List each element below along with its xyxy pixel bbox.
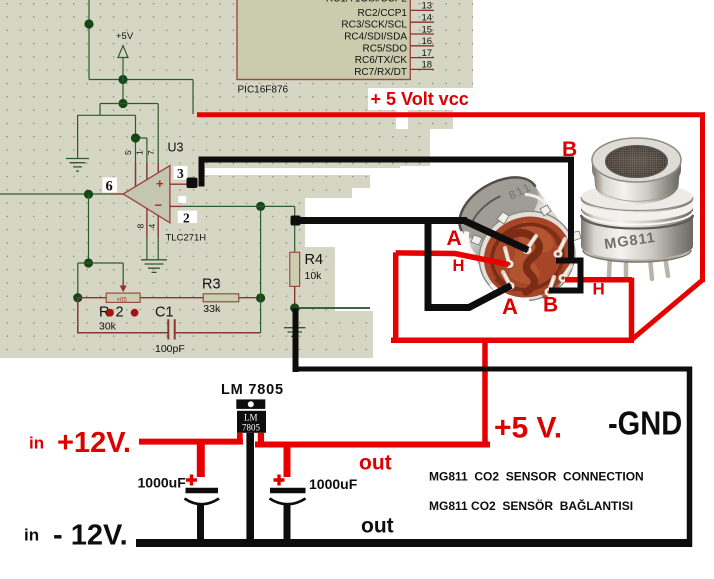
svg-text:H: H bbox=[453, 257, 465, 275]
junction dot bbox=[256, 293, 265, 302]
junction dot bbox=[84, 19, 93, 28]
svg-text:- 12V.: - 12V. bbox=[53, 520, 128, 552]
RIGHT SENSOR photo (MG811 side view) bbox=[581, 138, 693, 279]
svg-text:2: 2 bbox=[183, 210, 190, 225]
svg-text:U3: U3 bbox=[168, 141, 184, 155]
ground symbol (under R4) bbox=[284, 328, 306, 341]
junction dot bbox=[84, 190, 93, 199]
svg-text:−: − bbox=[155, 198, 163, 213]
svg-text:14: 14 bbox=[422, 13, 433, 24]
svg-text:2: 2 bbox=[116, 305, 124, 321]
capacitor C2 leg (red) bbox=[197, 444, 205, 477]
capacitor C3 plates bbox=[270, 488, 306, 494]
wire: pot to R3 bbox=[140, 297, 203, 299]
resistor R3 bbox=[203, 294, 260, 302]
sensor pins bbox=[503, 236, 571, 296]
junction dot bbox=[84, 258, 93, 267]
sensor rim bbox=[466, 197, 589, 315]
sensor cap bbox=[592, 160, 681, 192]
plus sign C2 bbox=[186, 475, 197, 486]
op-amp U3 TLC271H bbox=[123, 166, 170, 223]
svg-text:5: 5 bbox=[123, 150, 133, 155]
red wire: H right to box bbox=[565, 277, 632, 283]
svg-text:LM: LM bbox=[244, 413, 258, 423]
rim crimp tabs bbox=[471, 205, 581, 245]
svg-text:out: out bbox=[359, 452, 392, 475]
wire: R3 node vertical bbox=[260, 206, 262, 332]
resistor R4 bbox=[290, 252, 300, 308]
svg-text:15: 15 bbox=[422, 24, 433, 35]
capacitor C3 bottom leg bbox=[284, 505, 291, 543]
sensor ceramic face bbox=[472, 204, 582, 309]
opamp pin stubs maroon (5,1,7) bbox=[136, 163, 159, 187]
svg-text:6: 6 bbox=[106, 179, 113, 195]
svg-text:RC5/SDO: RC5/SDO bbox=[363, 43, 408, 54]
svg-text:3: 3 bbox=[177, 166, 184, 181]
svg-text:in: in bbox=[29, 434, 44, 453]
ground symbol (left) bbox=[66, 159, 89, 172]
red wire: +12V input bbox=[139, 439, 243, 445]
junction dot bbox=[256, 202, 265, 211]
red annotation: +5 Volt vcc white band bbox=[368, 88, 473, 110]
svg-text:H: H bbox=[593, 280, 605, 299]
svg-text:PIC16F876: PIC16F876 bbox=[238, 85, 289, 96]
svg-text:TLC271H: TLC271H bbox=[166, 233, 207, 244]
svg-text:-GND: -GND bbox=[608, 405, 682, 442]
svg-text:MG811 CO2 SENSÖR BAĞLANTISI: MG811 CO2 SENSÖR BAĞLANTISI bbox=[429, 498, 633, 513]
LM7805 regulator package bbox=[236, 399, 266, 432]
svg-text:17: 17 bbox=[422, 48, 433, 59]
wire: +5V horizontal rail bbox=[89, 79, 193, 81]
svg-text:out: out bbox=[361, 515, 394, 538]
svg-text:×05: ×05 bbox=[117, 298, 128, 304]
LEFT SENSOR photo (MG811 bottom view) bbox=[445, 162, 589, 317]
svg-text:1: 1 bbox=[135, 150, 145, 155]
svg-text:1000uF: 1000uF bbox=[138, 475, 187, 491]
svg-text:R3: R3 bbox=[202, 277, 221, 293]
svg-text:16: 16 bbox=[422, 36, 433, 47]
svg-text:in: in bbox=[24, 526, 39, 545]
svg-text:RC4/SDI/SDA: RC4/SDI/SDA bbox=[344, 32, 407, 43]
svg-text:B: B bbox=[543, 294, 558, 317]
svg-text:+ 5 Volt vcc: + 5 Volt vcc bbox=[371, 89, 469, 109]
black solder square pin3 bbox=[187, 178, 198, 189]
svg-text:MG811 CO2 SENSOR CONNECTION: MG811 CO2 SENSOR CONNECTION bbox=[429, 470, 644, 484]
potentiometer RV2 body bbox=[78, 293, 140, 304]
svg-text:A: A bbox=[502, 294, 518, 319]
pin 2 white box bbox=[178, 211, 197, 223]
black wire: GND right edge bbox=[687, 367, 693, 548]
wire: pin5/pin1 node bbox=[136, 104, 159, 187]
svg-text:RC3/SCK/SCL: RC3/SCK/SCL bbox=[341, 20, 407, 31]
red wire: box left edge bbox=[393, 252, 399, 342]
ground symbol (under opamp) bbox=[141, 260, 167, 273]
red wire: +5V drop to regulator output bbox=[482, 338, 488, 444]
svg-text:18: 18 bbox=[422, 60, 433, 71]
svg-text:A: A bbox=[447, 227, 462, 250]
capacitor C1 bbox=[78, 298, 261, 340]
wire: down to opamp supply node bbox=[122, 80, 124, 104]
capacitor C2 plates bbox=[186, 488, 219, 494]
junction dot bbox=[73, 293, 82, 302]
svg-text:1000uF: 1000uF bbox=[309, 476, 358, 492]
svg-text:4: 4 bbox=[147, 224, 157, 229]
svg-text:R4: R4 bbox=[305, 252, 324, 268]
svg-text:+5V: +5V bbox=[116, 31, 134, 42]
svg-text:100pF: 100pF bbox=[155, 343, 185, 355]
junction dot bbox=[118, 75, 127, 84]
wire: feedback from output down bbox=[88, 194, 90, 263]
wire: pin2 net bbox=[183, 206, 295, 252]
wire: pins to ground bbox=[147, 237, 158, 260]
svg-text:33k: 33k bbox=[203, 303, 221, 315]
svg-text:+12V.: +12V. bbox=[57, 427, 131, 459]
svg-text:RC6/TX/CK: RC6/TX/CK bbox=[355, 55, 408, 66]
opamp output stub bbox=[110, 193, 123, 195]
wire: rail corner down to red jumper bbox=[192, 80, 194, 115]
black wire: GND bottom rail bbox=[136, 539, 691, 547]
pot marker dots bbox=[106, 309, 114, 317]
wire: supply branch horizontals bbox=[78, 104, 158, 159]
pin 3 white box bbox=[174, 166, 188, 180]
black wire: pin2 node to sensor A pins bbox=[296, 217, 529, 308]
red wire: box right edge bbox=[629, 278, 635, 341]
sensor body bbox=[581, 198, 693, 260]
black wire: schematic ground down bbox=[293, 308, 299, 372]
black wire: pin3 to sensor B bbox=[199, 157, 584, 291]
svg-text:RC2/CCP1: RC2/CCP1 bbox=[358, 8, 408, 19]
svg-text:C1: C1 bbox=[155, 305, 174, 321]
svg-text:B: B bbox=[562, 138, 577, 161]
wire: R4 node to right bbox=[295, 307, 370, 309]
svg-text:8: 8 bbox=[136, 224, 146, 229]
black solder square pin2 net bbox=[291, 216, 301, 226]
opamp bottom pins 8 and 4 bbox=[147, 208, 158, 237]
junction dot bbox=[118, 99, 127, 108]
junction dot bbox=[131, 133, 140, 142]
red wire: +5V output bbox=[255, 442, 490, 448]
white streak bbox=[396, 110, 408, 129]
regulator output leg (red) bbox=[258, 433, 264, 447]
chip pins 13-18 bbox=[410, 10, 434, 69]
red wire: box bottom edge bbox=[391, 338, 634, 344]
black wire: GND top rail bbox=[293, 367, 688, 372]
opamp pin2 stub bbox=[170, 205, 183, 207]
svg-text:30k: 30k bbox=[99, 321, 117, 333]
junction dot bbox=[290, 303, 299, 312]
schematic dotted background region bbox=[0, 0, 473, 358]
svg-text:13: 13 bbox=[422, 1, 433, 12]
red wire: +5 Volt vcc line bbox=[197, 112, 703, 282]
sensor can body bbox=[445, 162, 589, 317]
regulator input leg (red) bbox=[237, 433, 243, 444]
opamp pin3 stub bbox=[170, 183, 188, 185]
capacitor C3 leg (red) bbox=[284, 447, 291, 477]
red wire: diagonal right bbox=[633, 280, 703, 339]
svg-text:7805: 7805 bbox=[242, 423, 261, 433]
power symbol +5V bbox=[122, 58, 124, 80]
regulator ground leg bbox=[246, 433, 254, 543]
wire: +5V rail vertical from top bbox=[88, 0, 90, 80]
svg-text:+: + bbox=[156, 176, 164, 191]
svg-text:LM 7805: LM 7805 bbox=[221, 382, 284, 398]
plus sign C3 bbox=[274, 475, 285, 486]
wire: output net bbox=[0, 193, 110, 195]
pin 6 white box bbox=[103, 178, 118, 193]
wire: feedback left leg bbox=[78, 263, 89, 298]
PIC16F876 chip body bbox=[237, 0, 410, 80]
svg-text:RC7/RX/DT: RC7/RX/DT bbox=[354, 67, 407, 78]
pot wiper arrow bbox=[122, 280, 124, 288]
svg-text:10k: 10k bbox=[305, 270, 323, 282]
svg-text:RC1/T1OSI/CCP2: RC1/T1OSI/CCP2 bbox=[326, 0, 408, 4]
svg-text:+5 V.: +5 V. bbox=[494, 412, 562, 445]
wire: R4 node to ground bbox=[294, 308, 296, 328]
wire: to pot wiper bbox=[89, 263, 124, 280]
red wire: to H left pin bbox=[396, 253, 509, 265]
capacitor C2 bottom leg bbox=[197, 505, 204, 543]
small white square bbox=[178, 196, 186, 203]
sensor pins bbox=[609, 256, 668, 279]
svg-text:7: 7 bbox=[146, 150, 156, 155]
